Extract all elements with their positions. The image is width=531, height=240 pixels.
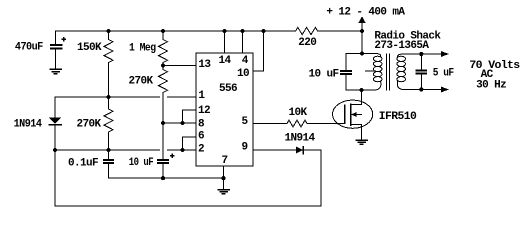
capacitor C_0.1uF plates [103, 160, 114, 163]
svg-text:220: 220 [298, 37, 316, 49]
transformer T1 primary loops [373, 56, 382, 61]
transformer T1 secondary loops [397, 56, 406, 61]
resistor R_220 zigzag [296, 27, 318, 34]
wire top rail left [56, 30, 296, 32]
resistor R_270K_b lead top [108, 97, 110, 109]
wire 1Meg to node13 [162, 63, 164, 70]
node dot pin1 tee [106, 95, 110, 99]
wire pin13 [163, 65, 196, 67]
svg-text:470uF: 470uF [15, 42, 43, 54]
wire primary bottom [346, 89, 375, 91]
capacitor C_10uF_b lead top [345, 54, 347, 72]
node dot pin10 [261, 29, 265, 33]
capacitor C_470uF lead top [55, 31, 57, 45]
wire secondary top [404, 53, 442, 55]
transistor Q1 body line [357, 114, 362, 116]
svg-text:9: 9 [242, 142, 248, 154]
wire diode2 to corner [303, 149, 321, 151]
svg-text:+ 12 - 400 mA: + 12 - 400 mA [326, 7, 405, 19]
wire 270Ka tail down to 10uF [162, 93, 164, 161]
transistor Q1 arrow [351, 112, 357, 117]
node dot primary bottom drain [359, 88, 363, 92]
wire pin7 stub [223, 166, 225, 178]
node dot pin4 [240, 29, 244, 33]
wire pin10 riser [253, 31, 264, 71]
svg-text:IFR510: IFR510 [379, 111, 416, 123]
node dot 150K top [106, 29, 110, 33]
svg-text:70 Volts: 70 Volts [469, 60, 519, 72]
wire pin2 row left [55, 149, 160, 151]
svg-text:12: 12 [198, 105, 210, 117]
wire pin9 [253, 149, 296, 151]
resistor R_270K_b zigzag [104, 109, 113, 132]
transistor Q1 IRF510 ellipse [333, 100, 373, 128]
wire bottom rail [55, 205, 321, 207]
capacitor C_10uF_a plates [157, 160, 169, 163]
svg-text:273-1365A: 273-1365A [374, 40, 429, 52]
svg-text:10 uF: 10 uF [309, 69, 339, 81]
node dot +12 tee [360, 29, 364, 33]
wire secondary bottom [404, 89, 442, 91]
resistor R_270K_a zigzag [159, 70, 168, 93]
svg-text:4: 4 [242, 55, 249, 67]
node dot pin12 pin8 [180, 121, 184, 125]
resistor R_150K lead bottom [108, 63, 110, 98]
ground GND2 under pin7 [223, 178, 225, 189]
capacitor C_10uF_a lead bottom [162, 163, 164, 178]
node dot diode1 pin2 [53, 148, 57, 152]
svg-text:270K: 270K [129, 76, 154, 88]
capacitor C_5uF lead top [420, 54, 422, 71]
capacitor C_470uF plates [50, 45, 63, 48]
plus sign 10uF_a [170, 153, 175, 158]
svg-text:30 Hz: 30 Hz [476, 80, 506, 92]
transformer T1 primary entry curve [375, 54, 381, 57]
svg-text:10K: 10K [289, 107, 308, 119]
wire +12 riser [361, 21, 363, 54]
IC U1 556 box [196, 53, 253, 166]
svg-text:270K: 270K [77, 119, 102, 131]
diode D2 1N914 bar [302, 147, 304, 154]
arrow +12 supply [358, 16, 366, 23]
node dot secondary bottom 5uF [419, 87, 423, 91]
wire diode1 top [55, 96, 109, 98]
wire pin1 left segment [109, 96, 160, 98]
capacitor C_10uF_b lead bottom [345, 74, 347, 90]
ground GND3 under MOSFET [356, 140, 367, 144]
plus sign 470uF [61, 37, 66, 42]
resistor R_1Meg zigzag [159, 40, 168, 63]
resistor R_150K zigzag [104, 40, 113, 63]
node dot primary top [360, 51, 364, 55]
transistor Q1 drain connect [351, 90, 362, 105]
transformer T1 center tap dash [366, 70, 376, 72]
svg-text:14: 14 [219, 55, 232, 67]
wire primary top [346, 53, 375, 55]
transformer T1 secondary exit curve [397, 82, 403, 90]
transistor Q1 gate bar [344, 105, 346, 123]
transformer T1 primary exit curve [375, 82, 381, 91]
svg-text:10 uF: 10 uF [129, 157, 154, 169]
node dot 270Kb pin2 [106, 148, 110, 152]
svg-text:1 Meg: 1 Meg [129, 42, 156, 54]
capacitor C_5uF lead bottom [420, 74, 422, 90]
node dot 1Meg top [161, 29, 165, 33]
wire feedback riser right [320, 150, 322, 206]
wire top rail right of 220 [318, 30, 362, 32]
node dot 10uF ground wire [161, 176, 165, 180]
transistor Q1 source connect [351, 125, 362, 140]
svg-text:8: 8 [198, 119, 205, 131]
diode D2 triangle [296, 147, 303, 154]
node dot pin13 tee [161, 63, 165, 67]
svg-text:1N914: 1N914 [285, 133, 316, 145]
ground GND1 under 470uF [50, 69, 61, 73]
transformer T1 secondary entry curve [398, 54, 404, 57]
svg-text:6: 6 [198, 131, 204, 143]
wire pin4 riser [242, 31, 244, 53]
transformer T1 core [387, 54, 390, 90]
wire pin2 row right [167, 149, 196, 151]
svg-text:0.1uF: 0.1uF [68, 158, 98, 170]
arrow output top [441, 51, 449, 57]
svg-text:7: 7 [222, 155, 228, 167]
capacitor C_0.1uF lead bottom [109, 163, 224, 178]
resistor R_10K zigzag [287, 120, 307, 127]
node dot pin6 pin2 [180, 148, 184, 152]
svg-text:1N914: 1N914 [14, 119, 43, 131]
resistor R_270K_b lead bottom [108, 132, 110, 160]
node dot pin7 ground [221, 176, 225, 180]
capacitor C_5uF plates [416, 71, 428, 74]
diode D1 triangle [49, 118, 61, 125]
capacitor C_470uF lead bottom [55, 49, 57, 70]
arrow output bottom [441, 87, 449, 93]
wire pin1 right segment [167, 96, 196, 98]
transistor Q1 channel bar [350, 104, 352, 125]
svg-text:10: 10 [237, 68, 249, 80]
node dot 270Ka pin8 [161, 121, 165, 125]
diode D1 1N914 bar [49, 124, 61, 126]
wire pin12 [183, 110, 197, 123]
capacitor C_10uF_b plates [340, 71, 352, 74]
svg-text:150K: 150K [77, 42, 102, 54]
node dot pin14 [222, 29, 226, 33]
svg-text:13: 13 [198, 59, 211, 71]
svg-text:2: 2 [198, 144, 204, 156]
svg-text:556: 556 [219, 83, 237, 95]
wire pin14 riser [224, 31, 226, 53]
resistor R_1Meg lead top [162, 31, 164, 40]
diode D1 1N914 lead top [54, 97, 56, 118]
svg-text:5: 5 [242, 116, 249, 128]
wire pin8 [163, 122, 196, 124]
resistor R_150K lead top [108, 31, 110, 40]
wire pin5 to 10K [253, 123, 287, 125]
diode D1 lead bottom to rail [54, 125, 56, 207]
svg-text:5 uF: 5 uF [433, 68, 454, 80]
wire 10K to gate [307, 123, 345, 125]
wire pin6 [183, 137, 197, 150]
node dot secondary top 5uF [419, 52, 423, 56]
svg-text:1: 1 [198, 90, 205, 102]
